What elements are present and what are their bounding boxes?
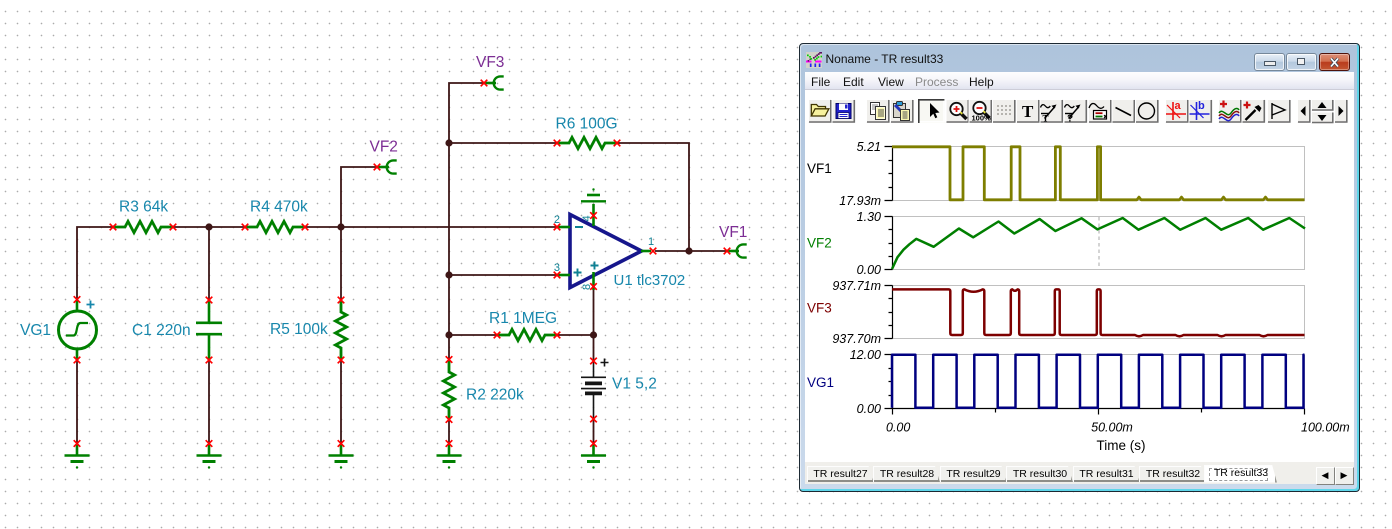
panel frame VF1 — [893, 147, 1305, 201]
terminal x R6 right — [614, 140, 621, 147]
terminal x ground V1 — [590, 440, 597, 447]
wire R4 to op-amp pin 2 — [306, 226, 556, 228]
junction node D — [445, 271, 452, 278]
svg-text:R1 1MEG: R1 1MEG — [489, 310, 557, 327]
terminal x R5 top — [338, 297, 345, 304]
terminal x R4 left — [242, 224, 249, 231]
terminal x VG1 bottom — [74, 357, 81, 364]
svg-text:R6 100G: R6 100G — [556, 116, 618, 133]
junction node F — [590, 331, 597, 338]
svg-text:1: 1 — [648, 236, 654, 248]
terminal x R4 right — [302, 224, 309, 231]
nav spinner down — [1311, 112, 1333, 124]
terminal x pin 8 — [590, 283, 597, 290]
wire C1 bottom to ground — [208, 361, 210, 443]
voltage source VG1 — [59, 300, 97, 360]
svg-text:?: ? — [1067, 114, 1073, 125]
svg-text:U1 tlc3702: U1 tlc3702 — [614, 272, 686, 289]
junction node B — [337, 223, 344, 230]
button grid (disabled) — [992, 99, 1015, 123]
op-amp plus marking (pin 3) — [574, 269, 582, 277]
svg-text:100%: 100% — [972, 114, 992, 123]
op-amp output lead pin 1 — [641, 250, 651, 253]
wire V1 bottom to ground — [593, 420, 595, 443]
button copy — [866, 99, 889, 123]
minimize button — [1254, 53, 1285, 71]
close button — [1319, 53, 1350, 71]
svg-text:VG1: VG1 — [20, 322, 51, 339]
V1 polarity plus — [601, 359, 609, 367]
button legend — [1088, 99, 1111, 123]
wire R1 right to node F — [558, 334, 594, 336]
resistor R6 — [557, 137, 617, 148]
svg-text:R2 220k: R2 220k — [466, 387, 524, 404]
button save — [832, 99, 855, 123]
svg-text:R3 64k: R3 64k — [119, 199, 168, 216]
y axis VG1 — [885, 355, 893, 409]
panel frame VF3 — [893, 286, 1305, 339]
terminal x C1 top — [206, 297, 213, 304]
ground below R2 — [437, 445, 462, 469]
wire R5 bottom to ground — [340, 361, 342, 443]
terminal x ground VG1 — [74, 440, 81, 447]
junction node E — [445, 331, 452, 338]
y axis VF1 — [885, 147, 893, 201]
op-amp minus marking — [575, 226, 583, 228]
wire R2 bottom to ground — [448, 420, 450, 443]
terminal x C1 bottom — [206, 357, 213, 364]
terminal x pin 3 — [554, 272, 561, 279]
button text T — [1016, 99, 1039, 123]
button open — [808, 99, 831, 123]
svg-text:VF1: VF1 — [719, 224, 747, 241]
svg-text:100.00m: 100.00m — [1301, 421, 1350, 435]
op-amp plus marking (pin 8) — [591, 262, 599, 270]
button circle — [1135, 99, 1158, 123]
restore button — [1286, 53, 1317, 71]
svg-text:V1 5,2: V1 5,2 — [612, 376, 657, 393]
op-amp pin 2 lead — [557, 226, 570, 229]
terminal x R3 right — [170, 224, 177, 231]
battery V1 — [581, 361, 606, 419]
svg-text:T: T — [1022, 102, 1034, 121]
button zoom in — [946, 99, 969, 123]
svg-text:Time (s): Time (s) — [1097, 438, 1146, 453]
trace VF3 — [892, 289, 1305, 336]
window icon — [806, 52, 822, 68]
trace VF1 — [892, 147, 1305, 200]
svg-text:0.00: 0.00 — [857, 402, 881, 416]
terminal x R2 bottom — [446, 416, 453, 423]
cursor dashed line — [1098, 217, 1100, 269]
resistor R2 — [443, 360, 454, 420]
terminal x VG1 top — [74, 296, 81, 303]
wire VG1 top to R3 — [77, 227, 112, 299]
terminal x VF1 probe — [724, 248, 731, 255]
svg-text:VG1: VG1 — [807, 375, 834, 390]
wire node B up to VF2 probe — [341, 167, 376, 227]
y axis VF2 — [885, 217, 893, 270]
ground below R5 — [329, 445, 354, 469]
terminal x R3 left — [110, 224, 117, 231]
terminal x pin 4 — [590, 212, 597, 219]
terminal x V1 bottom — [590, 416, 597, 423]
ground below C1 — [197, 445, 222, 469]
trace VF2 — [892, 218, 1305, 269]
junction output node — [685, 247, 692, 254]
probe VF2 — [378, 160, 397, 173]
svg-text:0.00: 0.00 — [886, 421, 910, 435]
terminal x pin 1 — [650, 248, 657, 255]
capacitor C1 — [196, 300, 222, 360]
svg-text:VF3: VF3 — [807, 301, 832, 316]
junction node C — [445, 139, 452, 146]
nav left button — [1297, 99, 1310, 123]
wire node C down to R2 top — [448, 143, 450, 359]
button line — [1112, 99, 1135, 123]
button interpolate T — [1040, 99, 1063, 124]
signal name labels — [807, 161, 834, 390]
op-amp pin 3 lead — [557, 274, 570, 277]
junction node A — [205, 223, 212, 230]
button cursor (pressed) — [918, 99, 945, 123]
result window — [799, 43, 1360, 492]
svg-text:b: b — [1198, 100, 1205, 112]
resistor R3 — [113, 221, 173, 232]
terminal x R6 left — [554, 140, 561, 147]
button paste — [890, 99, 913, 123]
wire VG1 bottom to ground — [76, 361, 78, 443]
wire op-amp output to VF1 probe — [655, 250, 726, 252]
wire VF3 node up to probe — [449, 83, 483, 143]
button flag — [1267, 99, 1290, 123]
ground below V1 — [581, 445, 606, 469]
x tick labels — [886, 421, 1350, 435]
wire node D to op-amp pin 3 — [449, 274, 556, 276]
svg-text:a: a — [1175, 100, 1182, 112]
trace VG1 — [892, 355, 1305, 408]
op-amp pin 4 lead — [592, 204, 595, 226]
terminal x ground C1 — [206, 440, 213, 447]
svg-text:17.93m: 17.93m — [839, 194, 881, 208]
svg-text:5.21: 5.21 — [857, 140, 881, 154]
button cursor b — [1189, 99, 1212, 123]
supply symbol on pin 4 (inverted ground) — [581, 188, 606, 201]
circuit schematic SVG — [0, 0, 800, 529]
button interpolate ? — [1064, 99, 1087, 125]
op-amp pin 8 lead — [592, 272, 595, 290]
y axis VF3 — [885, 286, 893, 339]
panel frame VG1 — [893, 355, 1305, 409]
svg-text:VF2: VF2 — [807, 236, 832, 251]
y labels — [832, 140, 881, 416]
terminal x pin 2 — [554, 224, 561, 231]
svg-text:1.30: 1.30 — [857, 210, 881, 224]
terminal x ground R2 — [446, 440, 453, 447]
terminal x R1 right — [554, 332, 561, 339]
svg-text:R4 470k: R4 470k — [250, 199, 308, 216]
svg-text:VF2: VF2 — [370, 139, 398, 156]
op-amp U1 — [570, 215, 642, 288]
button zoom 100% — [969, 99, 992, 123]
svg-text:R5 100k: R5 100k — [270, 321, 328, 338]
wire node B down to R5 — [340, 227, 342, 299]
terminal x VF2 probe — [374, 164, 381, 171]
wire op-amp pin 8 to node F — [593, 290, 595, 335]
ground below VG1 — [65, 445, 90, 469]
wire node E to R1 left — [449, 334, 496, 336]
svg-text:C1 220n: C1 220n — [132, 322, 191, 339]
nav spinner up — [1311, 99, 1333, 111]
terminal x R2 top — [446, 356, 453, 363]
button pick trace — [1242, 99, 1265, 123]
svg-text:VF1: VF1 — [807, 161, 832, 176]
wire R6 right down to output node — [617, 143, 689, 251]
wire node C to R6 left — [449, 142, 556, 144]
probe VF1 — [728, 244, 747, 257]
nav right button — [1334, 99, 1347, 123]
terminal x R5 bottom — [338, 357, 345, 364]
svg-text:937.71m: 937.71m — [832, 279, 881, 293]
resistor R4 — [245, 221, 305, 232]
wire R3 to R4 through node A — [174, 226, 244, 228]
button cursor a — [1165, 99, 1188, 123]
terminal x V1 top — [590, 358, 597, 365]
panel frame VF2 — [893, 217, 1305, 270]
probe VF3 — [485, 76, 504, 89]
terminal x ground R5 — [338, 440, 345, 447]
terminal x R1 left — [494, 332, 501, 339]
wire node F to V1 top — [593, 335, 595, 360]
svg-text:T: T — [1043, 114, 1049, 124]
x axis — [893, 409, 1305, 415]
svg-text:0.00: 0.00 — [857, 263, 881, 277]
resistor R1 — [497, 329, 557, 340]
VG1 polarity plus — [87, 301, 95, 309]
resistor R5 — [335, 300, 346, 360]
terminal x VF3 probe — [481, 80, 488, 87]
svg-text:VF3: VF3 — [476, 54, 504, 71]
button export curves — [1218, 99, 1241, 123]
svg-text:937.70m: 937.70m — [832, 332, 881, 346]
wire node A down to C1 — [208, 227, 210, 299]
svg-text:50.00m: 50.00m — [1091, 421, 1133, 435]
svg-text:12.00: 12.00 — [850, 348, 881, 362]
